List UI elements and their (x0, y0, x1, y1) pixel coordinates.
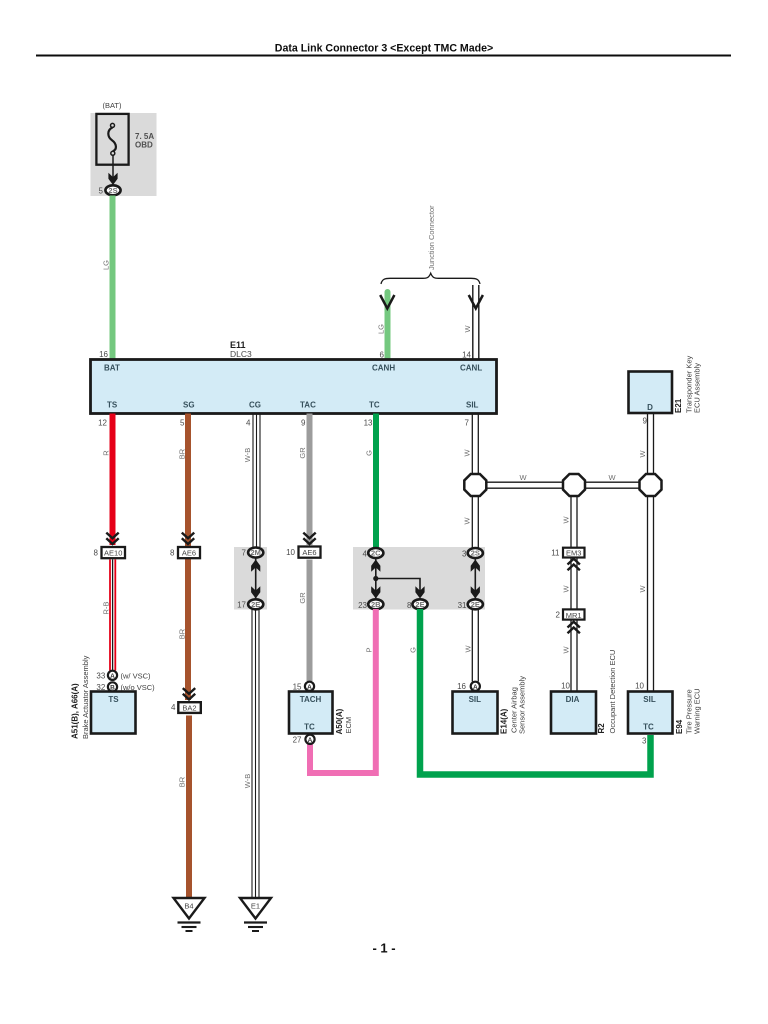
link line 2C down (375, 558, 377, 598)
svg-text:4: 4 (171, 703, 176, 712)
svg-text:AE6: AE6 (302, 548, 316, 557)
svg-text:2S: 2S (471, 549, 480, 558)
svg-text:16: 16 (457, 682, 466, 691)
box A50(A) ECM TACH/TC (289, 692, 333, 734)
horizontal bus wire left-mid octagon (485, 481, 564, 483)
svg-text:11: 11 (551, 549, 560, 558)
svg-text:LG: LG (102, 260, 111, 270)
svg-text:BR: BR (178, 776, 187, 787)
svg-text:2: 2 (556, 611, 561, 620)
arrow up into 2M (251, 560, 260, 572)
fuse element curve (108, 127, 116, 151)
svg-text:W: W (463, 449, 472, 457)
svg-text:8: 8 (170, 549, 175, 558)
svg-text:2M: 2M (250, 548, 260, 557)
svg-text:CG: CG (249, 401, 261, 410)
svg-text:DIA: DIA (566, 695, 580, 704)
terminal circle A into E14 (471, 682, 480, 691)
link line between 2M and 2E (255, 558, 257, 598)
svg-text:E21: E21 (674, 398, 683, 413)
connector AE6 (brown) (178, 547, 200, 558)
svg-text:W: W (464, 645, 473, 653)
chevron into AE6 gray (303, 533, 315, 544)
svg-text:9: 9 (643, 417, 648, 426)
svg-text:TAC: TAC (300, 401, 316, 410)
terminal circle A TACH (305, 682, 314, 691)
chevron into AE6 (182, 533, 194, 544)
wire W octagon to 2S (471, 495, 473, 549)
svg-text:- 1 -: - 1 - (372, 941, 395, 956)
arrow into 2S (108, 173, 117, 185)
wire W EM3 to MR1 (570, 557, 572, 609)
octagon junction left (464, 474, 486, 496)
svg-text:7: 7 (465, 419, 470, 428)
svg-text:R-B: R-B (102, 602, 111, 615)
svg-text:33: 33 (96, 672, 105, 681)
svg-text:GR: GR (298, 592, 307, 604)
branch line to 2E (376, 579, 420, 595)
shaded connector pass-through box (2M/2E) (234, 547, 267, 610)
svg-text:BR: BR (178, 448, 187, 459)
wire W from SIL pin7 (double line) (471, 414, 473, 476)
wire R-B below AE10 (109, 560, 111, 671)
svg-text:TS: TS (108, 695, 119, 704)
connector AE6 (gray) (299, 547, 321, 558)
svg-text:31: 31 (458, 601, 467, 610)
horizontal bus wire mid-right octagon (584, 481, 641, 483)
svg-text:LG: LG (376, 324, 385, 334)
svg-text:2E: 2E (251, 600, 260, 609)
title underline (36, 55, 731, 57)
wire G from 2E to E94 TC (420, 609, 651, 775)
wire W-B below 2E to ground E1 (251, 610, 253, 899)
svg-text:15: 15 (293, 683, 302, 692)
chevron into AE10 (106, 533, 118, 544)
wire W junction to E11 CANL (double line) (472, 285, 474, 360)
connector EM3 (563, 548, 585, 558)
wire from fuse to connector 2S (112, 155, 114, 178)
chevron up below MR1 (568, 622, 580, 633)
svg-text:E14(A): E14(A) (500, 708, 509, 734)
svg-text:R2: R2 (597, 723, 606, 734)
svg-text:W: W (463, 517, 472, 525)
svg-text:10: 10 (561, 682, 570, 691)
svg-text:Junction Connector: Junction Connector (427, 205, 436, 270)
arrow down into 2E (251, 586, 260, 598)
svg-text:W: W (463, 325, 472, 333)
svg-text:4: 4 (363, 550, 368, 559)
connector oval 2S right (468, 548, 483, 558)
svg-text:R: R (102, 450, 111, 456)
svg-text:3: 3 (642, 737, 647, 746)
svg-text:ECU Assembly: ECU Assembly (693, 363, 702, 413)
svg-text:(w/ VSC): (w/ VSC) (121, 672, 152, 681)
junction dot (373, 576, 378, 581)
svg-text:23: 23 (358, 601, 367, 610)
svg-text:TACH: TACH (300, 695, 322, 704)
svg-text:D: D (647, 403, 653, 412)
connector oval 2E right (468, 599, 483, 609)
svg-text:W: W (608, 473, 616, 482)
svg-text:OBD: OBD (135, 141, 153, 150)
connector BA2 (178, 702, 201, 713)
svg-text:G: G (365, 450, 374, 456)
svg-text:2B: 2B (371, 600, 381, 609)
svg-text:Sensor Assembly: Sensor Assembly (518, 676, 527, 734)
svg-text:27: 27 (293, 736, 302, 745)
box A51(B) A66(A) brake actuator TS (91, 692, 136, 734)
arrowhead V on CANL wire (469, 295, 483, 309)
link line 2S down (474, 558, 476, 598)
wire LG fuse to E11 BAT (110, 196, 116, 361)
svg-text:W-B: W-B (243, 774, 252, 788)
svg-text:AE6: AE6 (182, 548, 196, 557)
terminal circle B (w/o VSC) (108, 682, 117, 691)
svg-text:SIL: SIL (469, 695, 482, 704)
chevron up below EM3 (568, 559, 580, 570)
svg-text:P: P (365, 647, 374, 652)
arrow up into 2C (371, 560, 380, 572)
svg-text:W: W (638, 450, 647, 458)
svg-text:SIL: SIL (643, 695, 656, 704)
svg-text:17: 17 (237, 600, 246, 609)
svg-text:8: 8 (94, 549, 99, 558)
svg-text:3: 3 (462, 550, 467, 559)
connector oval 2S (fuse side) (105, 185, 120, 195)
terminal circle A TC (305, 735, 314, 744)
wire R from TS pin12 (110, 414, 116, 546)
svg-text:Warning ECU: Warning ECU (693, 688, 702, 734)
svg-text:W: W (562, 516, 571, 524)
wire LG junction to E11 CANH (385, 292, 391, 360)
wire GR below AE6 to ECM (307, 560, 313, 682)
box E21 transponder key ECU (629, 372, 673, 414)
svg-text:W: W (562, 585, 571, 593)
svg-text:W: W (562, 646, 571, 654)
svg-text:TC: TC (369, 401, 380, 410)
svg-text:B4: B4 (184, 902, 193, 911)
svg-text:CANH: CANH (372, 364, 395, 373)
svg-text:4: 4 (246, 419, 251, 428)
svg-text:9: 9 (301, 419, 306, 428)
svg-text:W-B: W-B (243, 448, 252, 462)
svg-text:W: W (519, 473, 527, 482)
box E14(A) center airbag sensor SIL (453, 692, 498, 734)
svg-text:E1: E1 (251, 902, 260, 911)
svg-text:13: 13 (364, 419, 373, 428)
svg-text:5: 5 (99, 186, 104, 195)
arrow down into 2E right (471, 586, 480, 598)
svg-text:CANL: CANL (460, 364, 482, 373)
wire P from 2B to ECM TC (310, 609, 376, 773)
svg-text:ECM: ECM (344, 717, 353, 734)
box R2 occupant detection ECU DIA (551, 692, 596, 734)
arrowhead V on CANH wire (380, 295, 394, 309)
svg-text:E94: E94 (675, 719, 684, 734)
svg-text:A: A (308, 737, 313, 744)
svg-text:BAT: BAT (104, 364, 120, 373)
connector MR1 (563, 609, 585, 619)
svg-text:TS: TS (107, 401, 118, 410)
svg-text:A: A (307, 684, 312, 691)
svg-text:A: A (473, 684, 478, 691)
fuse block shaded background (91, 113, 157, 196)
svg-text:2E: 2E (471, 600, 480, 609)
wire W-B from CG pin4 (triple line) (252, 414, 254, 549)
svg-text:2S: 2S (108, 186, 117, 195)
svg-text:TC: TC (643, 723, 654, 732)
svg-text:2E: 2E (415, 600, 424, 609)
octagon junction middle (563, 474, 585, 496)
svg-text:12: 12 (98, 419, 107, 428)
connector E11 DLC3 main box (91, 360, 497, 414)
svg-text:10: 10 (635, 682, 644, 691)
svg-text:MR1: MR1 (566, 611, 582, 620)
junction connector brace (381, 273, 480, 284)
svg-text:W: W (638, 585, 647, 593)
connector oval 2C (368, 548, 383, 558)
svg-text:Brake Actuator Assembly: Brake Actuator Assembly (81, 655, 90, 739)
connector oval 2E mid (412, 599, 427, 609)
svg-text:SIL: SIL (466, 401, 479, 410)
wire W middle octagon down to EM3 (570, 495, 572, 548)
wire BR below BA2 to ground (186, 716, 192, 899)
wire G from TC pin13 (373, 414, 379, 549)
svg-text:Data Link Connector 3 <Except: Data Link Connector 3 <Except TMC Made> (275, 43, 493, 55)
wire GR from TAC pin9 (307, 414, 313, 546)
svg-text:A50(A): A50(A) (335, 708, 344, 734)
svg-text:7: 7 (242, 549, 247, 558)
wire W below 2E right to E14 (471, 610, 473, 682)
wire W MR1 to DIA (570, 620, 572, 692)
shaded connector box (2C/2B/2E/2S/2E) (353, 547, 485, 610)
fuse F1 7.5A OBD box (96, 114, 128, 165)
svg-text:2C: 2C (371, 549, 381, 558)
svg-text:Occupant Detection ECU: Occupant Detection ECU (608, 650, 617, 734)
svg-text:BA2: BA2 (182, 704, 196, 713)
arrow down into 2E mid (415, 586, 424, 598)
svg-text:DLC3: DLC3 (230, 349, 252, 359)
svg-text:A51(B), A66(A): A51(B), A66(A) (71, 683, 80, 739)
svg-text:5: 5 (180, 419, 185, 428)
svg-text:BR: BR (178, 628, 187, 639)
connector oval 2E (248, 599, 263, 609)
wire W right octagon down to E94 (647, 495, 649, 692)
svg-text:AE10: AE10 (104, 548, 122, 557)
connector oval 2B (368, 599, 383, 609)
svg-text:10: 10 (286, 548, 295, 557)
svg-text:G: G (409, 647, 418, 653)
connector AE10 (102, 547, 126, 558)
svg-text:16: 16 (99, 350, 108, 359)
ground B4 (174, 898, 205, 931)
svg-text:GR: GR (298, 447, 307, 459)
chevron into BA2 (183, 688, 195, 699)
wire BR from SG pin5 (185, 414, 191, 701)
arrow up into 2S (471, 560, 480, 572)
ground E1 (240, 898, 271, 931)
svg-text:A: A (110, 673, 115, 680)
wire W E21 to right octagon (647, 414, 649, 476)
connector oval 2M (248, 548, 263, 558)
svg-text:TC: TC (304, 723, 315, 732)
svg-text:SG: SG (183, 401, 195, 410)
arrow down into 2B (371, 586, 380, 598)
box E94 tire pressure warning ECU SIL/TC (628, 692, 673, 734)
terminal circle A (w/ VSC) (108, 671, 117, 680)
svg-text:EM3: EM3 (566, 549, 581, 558)
svg-text:(BAT): (BAT) (102, 101, 122, 110)
octagon junction right (640, 474, 662, 496)
svg-text:8: 8 (407, 601, 412, 610)
